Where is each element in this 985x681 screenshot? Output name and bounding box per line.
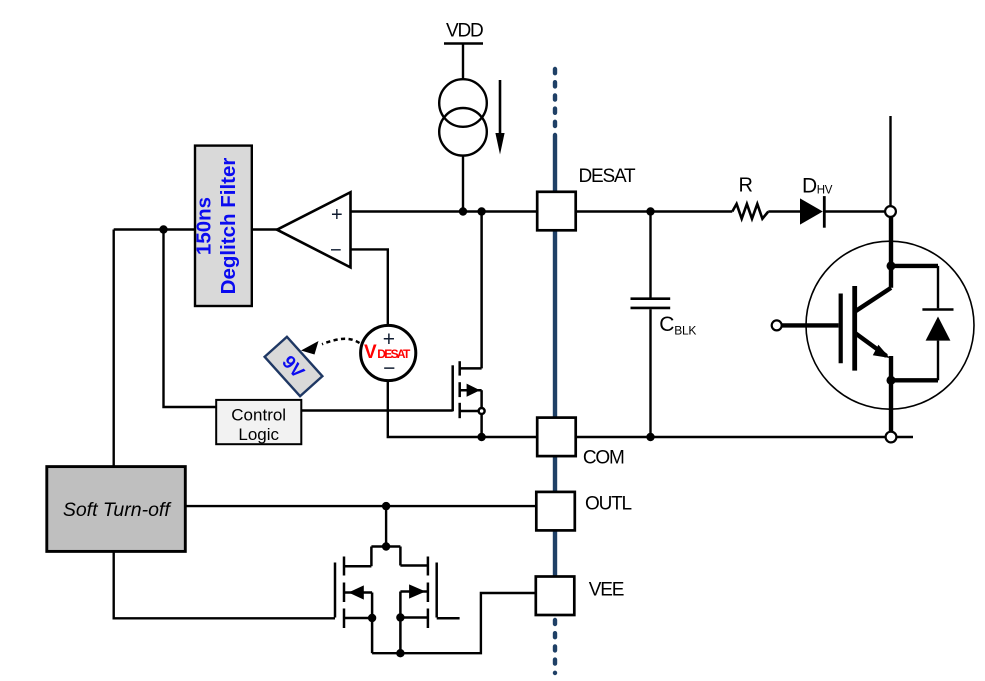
svg-text:150ns: 150ns [193, 197, 216, 255]
svg-text:Deglitch Filter: Deglitch Filter [217, 158, 240, 295]
svg-text:D: D [802, 175, 817, 198]
svg-text:Control: Control [231, 406, 286, 425]
svg-text:DESAT: DESAT [579, 166, 637, 187]
svg-text:+: + [331, 204, 343, 226]
svg-text:DESAT: DESAT [377, 347, 411, 361]
svg-text:Soft Turn-off: Soft Turn-off [63, 499, 173, 521]
svg-text:COM: COM [583, 448, 624, 469]
svg-text:OUTL: OUTL [585, 494, 632, 515]
svg-text:C: C [659, 313, 674, 336]
svg-text:V: V [364, 342, 377, 363]
svg-text:BLK: BLK [674, 323, 696, 337]
svg-text:Logic: Logic [238, 425, 279, 444]
svg-text:VDD: VDD [446, 21, 483, 42]
svg-text:VEE: VEE [589, 580, 624, 601]
svg-text:R: R [739, 175, 753, 197]
svg-text:−: − [330, 239, 342, 261]
svg-text:HV: HV [817, 185, 833, 197]
